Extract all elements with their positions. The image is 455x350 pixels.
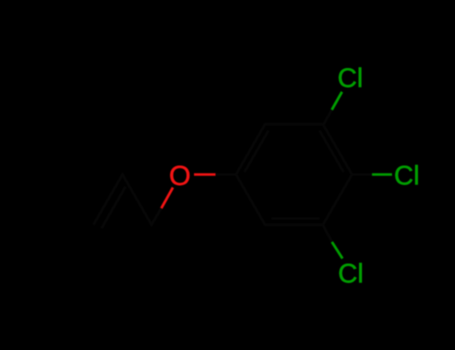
svg-text:O: O (169, 160, 191, 191)
svg-text:Cl: Cl (338, 259, 364, 289)
svg-text:Cl: Cl (394, 161, 420, 191)
svg-text:Cl: Cl (338, 63, 364, 93)
